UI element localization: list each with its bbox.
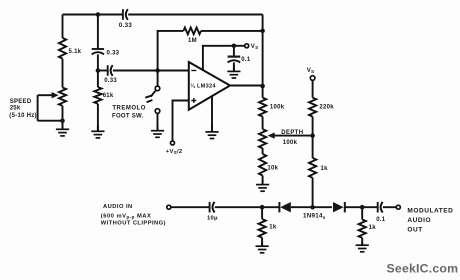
svg-text:1k: 1k: [321, 166, 329, 172]
svg-text:VS: VS: [251, 44, 259, 50]
svg-text:(5-10 Hz): (5-10 Hz): [9, 113, 37, 119]
svg-text:0.1: 0.1: [376, 217, 386, 223]
svg-text:100k: 100k: [270, 104, 285, 110]
svg-text:61k: 61k: [103, 93, 114, 99]
svg-text:1M: 1M: [188, 38, 197, 44]
svg-text:WITHOUT CLIPPING): WITHOUT CLIPPING): [101, 221, 166, 227]
svg-text:¼ LM324: ¼ LM324: [190, 82, 216, 89]
svg-text:1N914s: 1N914s: [303, 213, 326, 220]
svg-text:10k: 10k: [267, 165, 278, 171]
svg-text:(600 mVp-p MAX: (600 mVp-p MAX: [101, 213, 152, 219]
svg-text:1k: 1k: [269, 225, 277, 231]
svg-text:MODULATED: MODULATED: [407, 207, 453, 214]
svg-text:10μ: 10μ: [207, 216, 218, 222]
svg-text:0.33: 0.33: [104, 78, 117, 84]
svg-text:SeekIC.com: SeekIC.com: [387, 262, 459, 276]
svg-text:SPEED: SPEED: [10, 99, 32, 105]
svg-text:OUT: OUT: [407, 227, 422, 234]
svg-text:100k: 100k: [283, 140, 298, 146]
svg-text:FOOT SW.: FOOT SW.: [112, 114, 144, 120]
svg-text:+VS/2: +VS/2: [166, 149, 183, 155]
svg-text:0.33: 0.33: [107, 51, 120, 57]
svg-text:5.1k: 5.1k: [69, 49, 82, 55]
svg-text:AUDIO IN: AUDIO IN: [103, 204, 133, 210]
svg-text:25k: 25k: [10, 106, 21, 112]
svg-text:DEPTH: DEPTH: [281, 130, 303, 136]
svg-text:1k: 1k: [369, 225, 377, 231]
svg-text:0.1: 0.1: [241, 57, 251, 63]
svg-text:AUDIO: AUDIO: [407, 217, 431, 224]
svg-text:0.33: 0.33: [119, 22, 132, 29]
svg-text:220k: 220k: [319, 104, 334, 110]
svg-text:VS: VS: [307, 68, 315, 74]
svg-text:TREMOLO: TREMOLO: [112, 105, 145, 111]
